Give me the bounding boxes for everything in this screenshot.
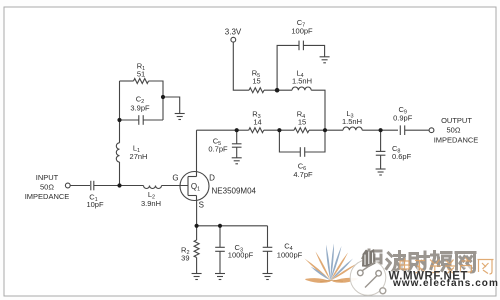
svg-text:IMPEDANCE: IMPEDANCE [25, 192, 70, 201]
capacitor C2 [139, 115, 143, 125]
leaf blue tall 1 [326, 245, 331, 281]
wire C7 to ground [303, 45, 324, 56]
inductor L2 [144, 186, 162, 189]
ground below C8 [376, 169, 386, 175]
watermark orange chinese overlay [400, 258, 494, 275]
svg-text:100pF: 100pF [291, 27, 313, 36]
wire loop bottom right [143, 119, 163, 121]
inductor L4 [292, 87, 311, 90]
input terminal [65, 183, 70, 188]
wire source down [196, 201, 198, 226]
wire loop top left [120, 80, 134, 82]
ground below R2 [192, 274, 202, 280]
watermark fan logo [305, 244, 358, 283]
wire loop right side down [162, 97, 164, 120]
resistor R5 [249, 88, 264, 93]
capacitor C6 [300, 147, 304, 157]
svg-text:OUTPUT: OUTPUT [441, 116, 472, 125]
char 1 hidden behind badge [363, 250, 381, 264]
svg-text:IMPEDANCE: IMPEDANCE [434, 136, 479, 145]
ground at R1C2 [175, 114, 185, 120]
resistor R3 [249, 128, 264, 133]
wire node B to R3 [237, 129, 249, 131]
wire C6 to node D [305, 130, 325, 152]
svg-text:1.5nH: 1.5nH [342, 117, 362, 126]
wire 3.3V down to R5 [233, 42, 249, 90]
ground below C3 [215, 274, 225, 280]
wire node A up to R1/C2 loop [119, 162, 121, 186]
resistor R4 [294, 128, 309, 133]
svg-text:G: G [172, 174, 178, 183]
3.3V terminal [231, 37, 236, 42]
wire R4 to node D [309, 129, 343, 131]
char she cun part [421, 252, 429, 270]
char bo water radical [387, 253, 392, 269]
svg-text:15: 15 [252, 77, 260, 86]
svg-text:S: S [199, 201, 204, 210]
node F junction dot [275, 88, 280, 93]
svg-text:1000pF: 1000pF [228, 251, 254, 260]
ground at C7 [320, 57, 330, 63]
wire R5 to node F [264, 89, 292, 91]
svg-text:39: 39 [181, 254, 189, 263]
char she body part [409, 254, 419, 272]
node E junction dot [379, 128, 383, 132]
wire loop node to ground [163, 97, 180, 114]
watermark grey chinese characters [363, 250, 475, 272]
loop right junction dot [161, 95, 165, 99]
wire main line drain corner to node B [197, 129, 237, 131]
node A junction dot [117, 183, 121, 187]
wire loop bottom left [120, 119, 139, 121]
leaf orange left [316, 252, 331, 281]
svg-text:NE3509M04: NE3509M04 [212, 187, 257, 196]
wire L4 to node D [311, 90, 325, 130]
book base left [305, 278, 331, 283]
node B junction dot [235, 128, 239, 132]
inductor L1 [116, 143, 119, 162]
wire L1 to loop bottom node [119, 120, 121, 143]
source node dot 2 [218, 224, 222, 228]
wire C9 to output terminal [405, 129, 429, 131]
svg-text:0.9pF: 0.9pF [393, 114, 413, 123]
book midrib [320, 280, 343, 282]
wire node F up to C7 [277, 45, 299, 90]
badge quill [362, 249, 376, 267]
inductor L3 [343, 127, 362, 130]
svg-text:1.5nH: 1.5nH [292, 77, 312, 86]
node D junction dot [323, 128, 327, 132]
leaf orange far left [305, 259, 331, 281]
svg-text:3.9pF: 3.9pF [130, 104, 150, 113]
resistor R1 [134, 79, 149, 84]
ground below C4 [263, 274, 273, 280]
leaf blue short left [311, 267, 331, 281]
leaf blue right [331, 246, 342, 281]
ground below C5 [232, 158, 242, 164]
char bo right part [393, 252, 405, 271]
svg-text:27nH: 27nH [130, 152, 148, 161]
char pin page part [442, 253, 452, 271]
svg-text:14: 14 [253, 118, 261, 127]
resistor R2 [194, 226, 199, 274]
svg-text:3.9nH: 3.9nH [141, 199, 161, 208]
svg-text:3.3V: 3.3V [225, 28, 242, 37]
watermark badge circle [350, 249, 386, 295]
char pin step part [431, 252, 440, 269]
output terminal [429, 128, 434, 133]
leaf blue short right [331, 259, 354, 281]
badge node ring left [358, 270, 364, 276]
node C junction dot [277, 128, 281, 132]
badge trace lines [363, 262, 377, 288]
wire source node line [197, 225, 268, 227]
svg-text:www.elecfans.com: www.elecfans.com [392, 278, 499, 289]
capacitor C8 shunt [376, 130, 386, 169]
svg-text:50Ω: 50Ω [447, 126, 461, 135]
badge node ring bottom [380, 288, 386, 294]
svg-text:15: 15 [298, 118, 306, 127]
wire L2 to gate [162, 185, 189, 187]
svg-text:4.7pF: 4.7pF [293, 170, 313, 179]
svg-text:50Ω: 50Ω [40, 183, 54, 192]
wire C6 branch [279, 130, 300, 152]
wire R3 to node C [264, 129, 294, 131]
svg-text:INPUT: INPUT [36, 173, 59, 182]
char wang box [456, 253, 475, 273]
badge node ring right [376, 271, 382, 277]
svg-text:51: 51 [137, 70, 145, 79]
leaf blue tall 2 [330, 244, 334, 281]
leaf orange far right [331, 264, 358, 281]
svg-text:1000pF: 1000pF [277, 251, 303, 260]
wire loop left side [119, 81, 121, 120]
capacitor C7 [299, 41, 303, 51]
wire C1 to node A [94, 185, 120, 187]
capacitor C5 shunt [232, 130, 242, 158]
wire drain up to main line [196, 130, 198, 171]
book base right [332, 278, 358, 283]
wire loop top right [149, 81, 164, 97]
svg-text:0.7pF: 0.7pF [208, 145, 228, 154]
capacitor C9 [400, 125, 404, 135]
capacitor C4 shunt [263, 226, 273, 274]
loop bottom junction dot [117, 118, 121, 122]
transistor Q1 [180, 172, 209, 201]
source node dot 1 [195, 224, 199, 228]
leaf orange right [331, 253, 349, 281]
capacitor C3 shunt [215, 226, 225, 274]
wire input line from terminal to C1 [70, 185, 90, 187]
svg-text:D: D [209, 174, 215, 183]
capacitor C1 [91, 181, 94, 191]
svg-text:10pF: 10pF [86, 200, 104, 209]
wire node A to L2 [120, 185, 144, 187]
svg-text:0.6pF: 0.6pF [392, 152, 412, 161]
wire L3 to node E [362, 129, 398, 131]
